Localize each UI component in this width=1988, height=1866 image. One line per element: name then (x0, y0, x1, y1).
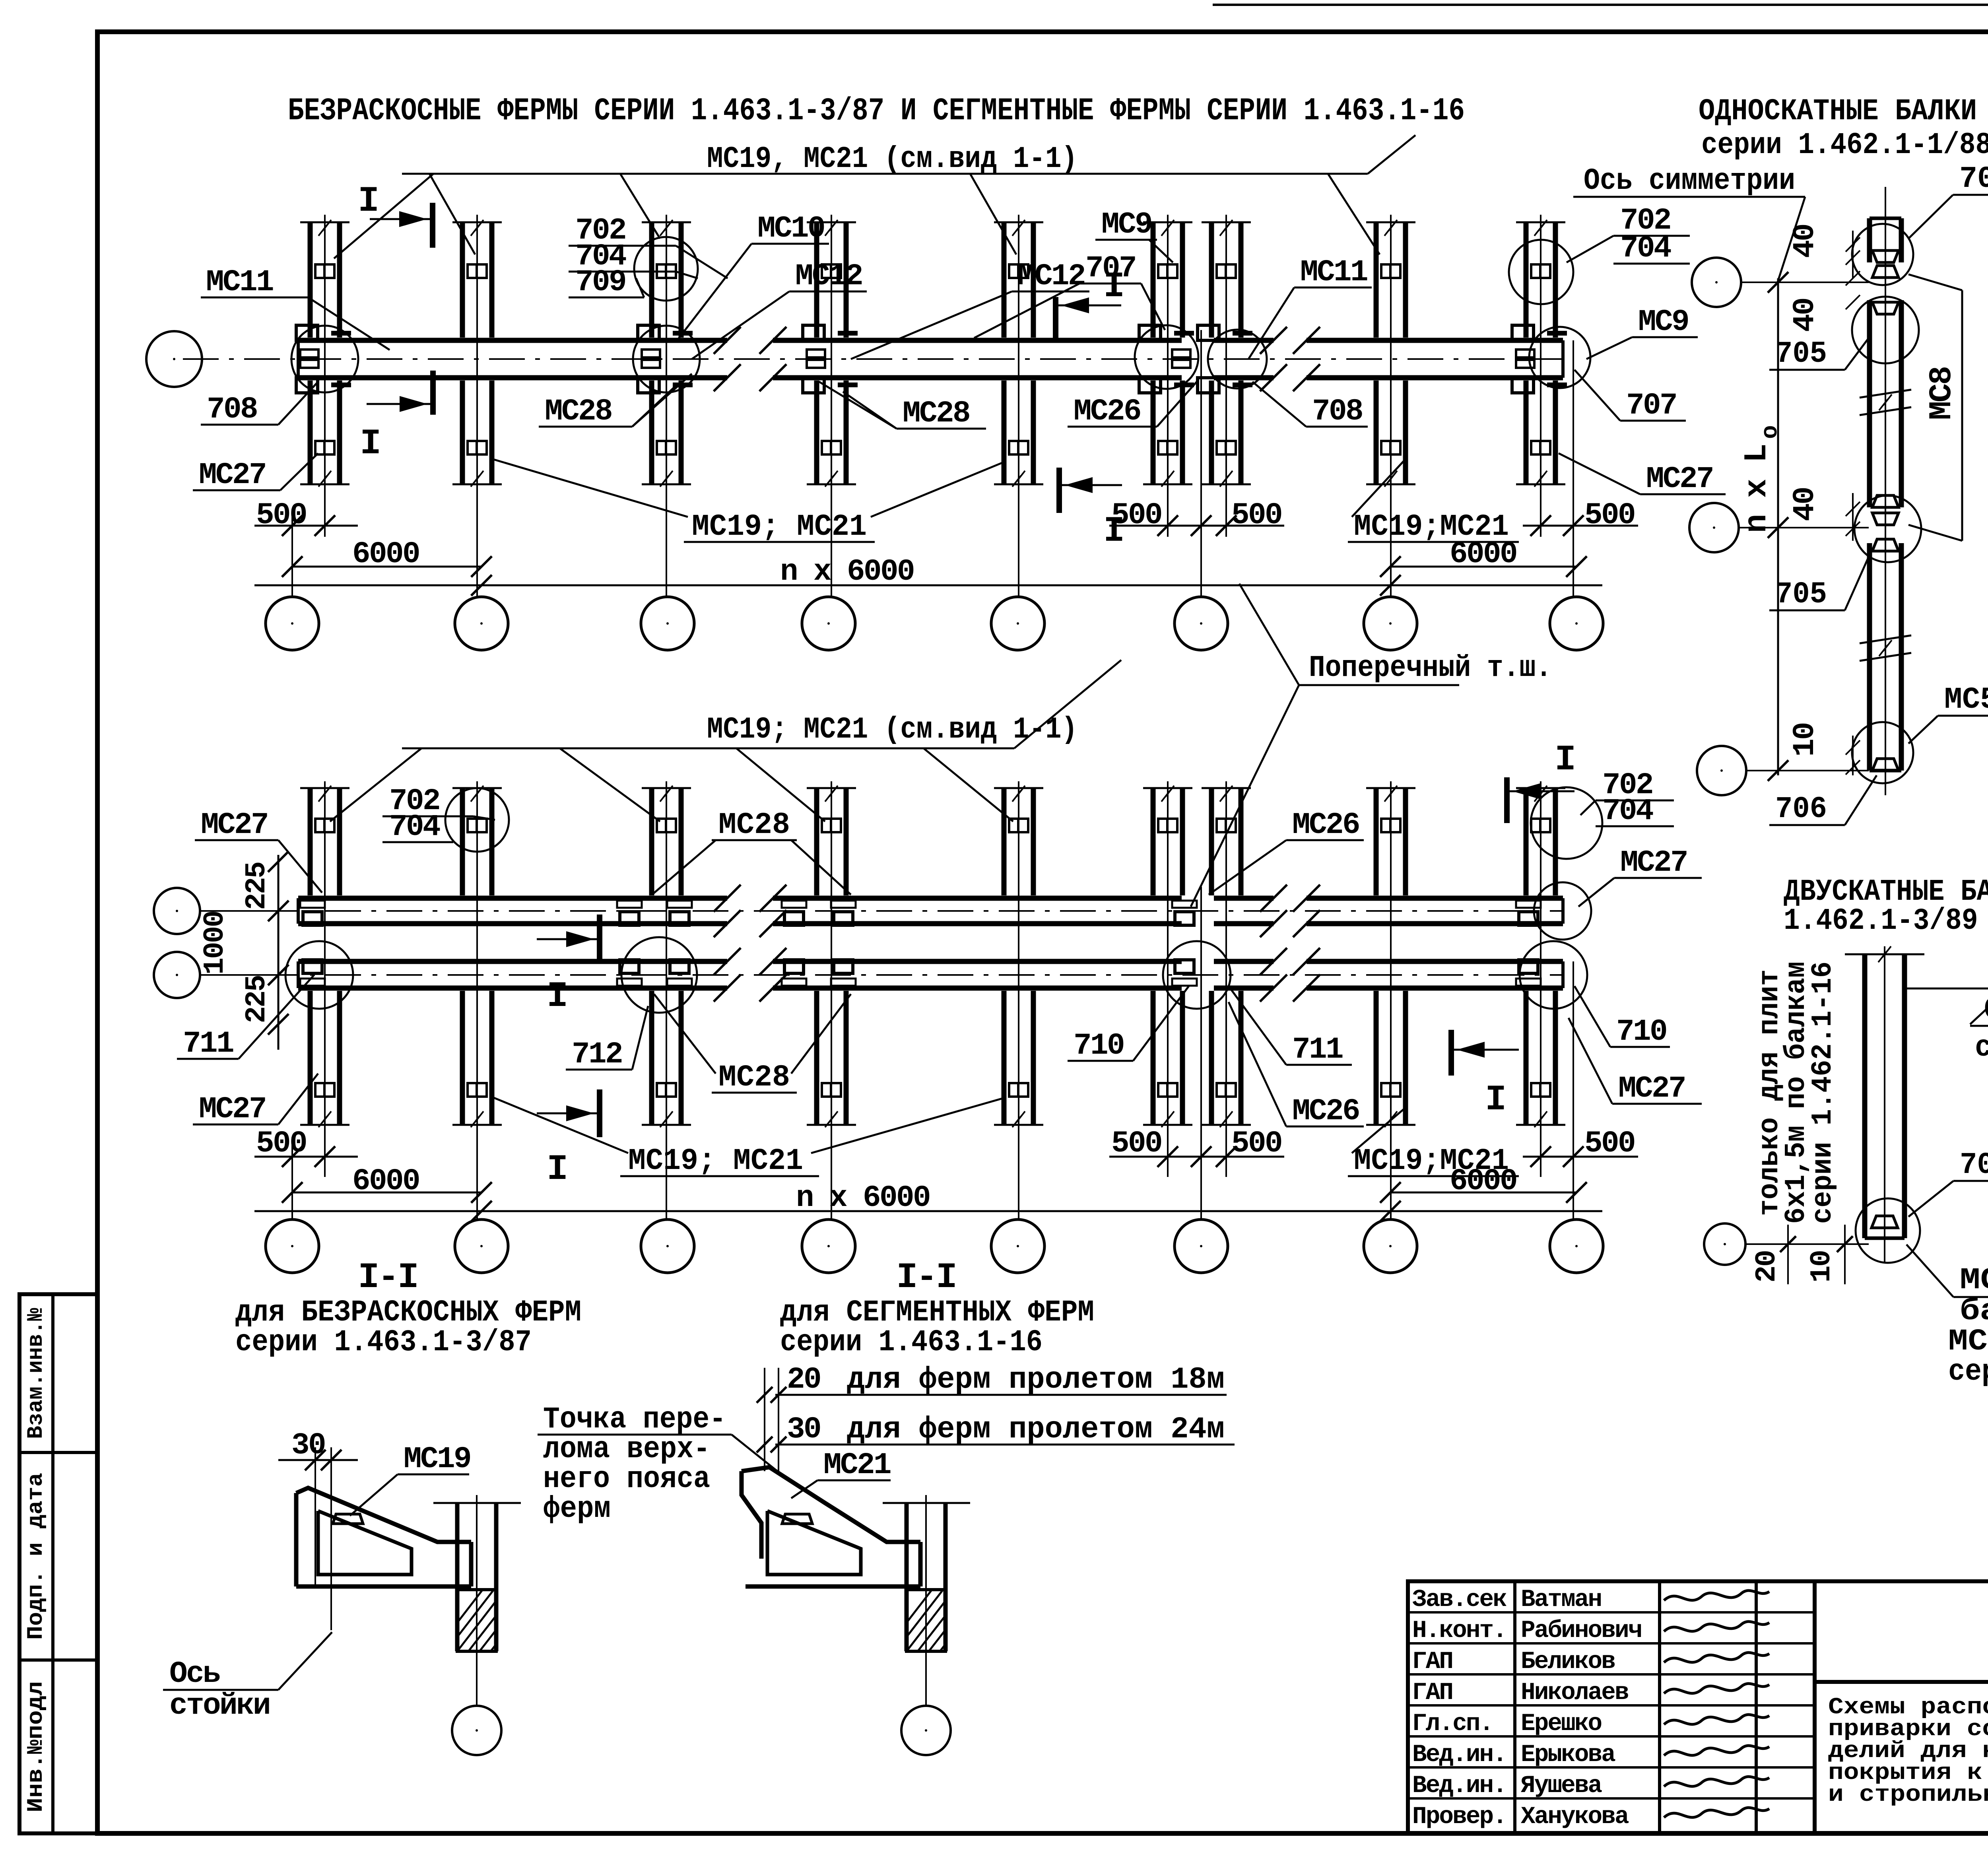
svg-text:500: 500 (1584, 1126, 1635, 1161)
detail left truss sketch (296, 1488, 521, 1755)
svg-text:704: 704 (1602, 794, 1653, 828)
gable beam Ось симметрии label (1905, 988, 1988, 1065)
plan1 dim 500 middle pair (1109, 498, 1284, 536)
svg-text:стойки: стойки (169, 1689, 270, 1723)
svg-text:МС12: МС12 (795, 259, 862, 293)
plan2 column circles (266, 1219, 1603, 1273)
plan1 bottom label МС19;МС21 right (1348, 461, 1519, 544)
svg-text:I: I (1103, 511, 1123, 552)
svg-text:Вед.ин.: Вед.ин. (1412, 1741, 1506, 1769)
label 705н (1908, 162, 1988, 239)
plan1 node detail circles (291, 237, 1590, 392)
label Поперечный т.ш. (1191, 584, 1552, 907)
svg-text:БЕЗРАСКОСНЫЕ ФЕРМЫ СЕРИИ 1.463: БЕЗРАСКОСНЫЕ ФЕРМЫ СЕРИИ 1.463.1-3/87 И … (288, 93, 1465, 129)
svg-text:МС19;МС21: МС19;МС21 (1354, 1144, 1509, 1178)
label Ось стойки (163, 1632, 332, 1723)
svg-text:Инв.№подл: Инв.№подл (23, 1681, 49, 1812)
plan1 node hooks and connectors (296, 325, 1567, 393)
svg-text:6000: 6000 (352, 1164, 419, 1198)
svg-text:Ерыкова: Ерыкова (1521, 1741, 1615, 1769)
svg-text:Беликов: Беликов (1521, 1648, 1615, 1676)
title ОДНОСКАТНЫЕ БАЛКИ (1699, 94, 1988, 162)
svg-text:o: o (1758, 426, 1784, 439)
svg-text:серии 1.462.1-1/88: серии 1.462.1-1/88 (1701, 128, 1988, 162)
svg-text:серии 1.463.1-16: серии 1.463.1-16 (780, 1325, 1043, 1359)
plan1 left axis bubble (146, 331, 202, 387)
svg-text:Ось: Ось (1984, 993, 1988, 1027)
svg-text:балок серии 1.462.1-16/88: балок серии 1.462.1-16/88 (1960, 1294, 1988, 1328)
svg-text:711: 711 (183, 1027, 233, 1061)
svg-text:20: 20 (787, 1363, 820, 1397)
svg-text:I: I (1555, 740, 1574, 781)
title block description (1828, 1695, 1988, 1808)
svg-text:МС8: МС8 (1924, 367, 1960, 420)
svg-text:МС26: МС26 (1292, 1094, 1359, 1128)
svg-text:ферм: ферм (543, 1492, 611, 1526)
svg-text:710: 710 (1616, 1015, 1666, 1049)
svg-text:n x 6000: n x 6000 (796, 1181, 930, 1215)
svg-text:МС27: МС27 (1646, 462, 1713, 496)
svg-text:МС19; МС21: МС19; МС21 (692, 510, 867, 544)
svg-text:20: 20 (1751, 1251, 1783, 1283)
single-slope beam detail circles (1852, 224, 1921, 783)
svg-text:ГАП: ГАП (1412, 1648, 1452, 1676)
detail I-I left caption (235, 1258, 581, 1359)
plan2 label МС28 bottom (654, 994, 851, 1095)
svg-text:225: 225 (241, 976, 273, 1023)
svg-text:МС10: МС10 (757, 212, 824, 246)
svg-text:МС19;МС21: МС19;МС21 (1354, 510, 1509, 544)
svg-text:Ерешко: Ерешко (1521, 1710, 1602, 1738)
svg-text:40: 40 (1788, 299, 1822, 332)
plan2 column axis lines (292, 781, 1573, 1219)
title block signatures (1664, 1590, 1769, 1817)
label 705 upper (1769, 337, 1869, 371)
svg-text:10: 10 (1788, 723, 1822, 757)
plan2 left axis bubbles (154, 888, 298, 998)
svg-text:Провер.: Провер. (1412, 1803, 1506, 1831)
plan1 roof trusses below girder (300, 381, 1565, 487)
svg-text:I: I (358, 181, 378, 222)
plan1 roof trusses above girder (300, 220, 1565, 338)
gable beam dims 20 10 (1751, 1225, 1853, 1284)
plan2 labels 702 704 right (1580, 768, 1674, 828)
plan2 label МС28 top (652, 808, 851, 895)
svg-text:МС52 для 1 типоразмера балок: МС52 для 1 типоразмера балок (1948, 1324, 1988, 1359)
svg-text:500: 500 (1111, 1126, 1161, 1161)
svg-text:n x 6000: n x 6000 (780, 555, 914, 589)
svg-text:Рабинович: Рабинович (1521, 1617, 1641, 1645)
detail left dim 30 (278, 1428, 358, 1630)
detail I-I right caption (780, 1258, 1094, 1359)
svg-text:МС19; МС21: МС19; МС21 (628, 1144, 803, 1178)
svg-text:лома верх-: лома верх- (543, 1432, 710, 1466)
svg-text:705: 705 (1775, 577, 1827, 612)
svg-text:500: 500 (1584, 498, 1635, 532)
svg-text:40: 40 (1788, 225, 1822, 258)
gable beam detail circle (1856, 1198, 1920, 1263)
svg-text:500: 500 (256, 498, 306, 532)
svg-text:МС28: МС28 (903, 396, 969, 431)
svg-text:МС21: МС21 (823, 1448, 891, 1482)
plan1 dim 500 right (1523, 498, 1638, 536)
plan2 roof trusses above upper girder (300, 786, 1565, 895)
svg-text:710: 710 (1074, 1029, 1124, 1063)
svg-text:симметрии: симметрии (1975, 1031, 1988, 1065)
svg-text:Поперечный т.ш.: Поперечный т.ш. (1309, 651, 1552, 685)
svg-text:серии 1.462.1-3/89: серии 1.462.1-3/89 (1948, 1355, 1988, 1389)
svg-text:40: 40 (1788, 488, 1822, 521)
svg-text:711: 711 (1292, 1033, 1343, 1067)
svg-text:704: 704 (389, 810, 440, 844)
svg-text:МС26: МС26 (1292, 808, 1359, 842)
svg-text:706: 706 (1775, 792, 1827, 826)
plan2 dim 500 right (1523, 1126, 1638, 1167)
title block role names (1412, 1586, 1641, 1831)
plan2 header leader diagonals (330, 748, 1013, 821)
svg-text:и стропильным конструкциям: и стропильным конструкциям (1828, 1782, 1988, 1808)
svg-text:МС27: МС27 (201, 808, 268, 842)
plan1 dim 6000 right (1380, 537, 1587, 577)
svg-text:I-I: I-I (358, 1258, 417, 1298)
svg-text:МС12: МС12 (1018, 259, 1085, 293)
svg-text:10: 10 (1806, 1251, 1838, 1283)
svg-text:МС27: МС27 (199, 458, 266, 492)
plan2 header label МС19; МС21 (см.вид 1-1) (402, 660, 1121, 748)
plan2 lower girder lines (298, 948, 1563, 1002)
svg-text:МС51 для 2 и 3 типоразмеров: МС51 для 2 и 3 типоразмеров (1960, 1263, 1988, 1297)
plan2 dim n x 6000 (254, 1181, 1602, 1221)
note МС51 МС52 block (1906, 1245, 1988, 1389)
svg-text:МС28: МС28 (718, 808, 790, 842)
svg-text:МС9: МС9 (1638, 305, 1688, 339)
label 706 gable (1908, 1148, 1988, 1217)
svg-text:МС50: МС50 (1944, 683, 1988, 717)
plan2 roof trusses below lower girder (300, 991, 1565, 1127)
svg-text:Гл.сп.: Гл.сп. (1412, 1710, 1493, 1738)
svg-text:Зав.сек: Зав.сек (1412, 1586, 1507, 1614)
plan1 bottom label МС19; МС21 (493, 459, 1006, 544)
plan1 header label МС19, МС21 (см.вид 1-1) (402, 135, 1415, 176)
svg-text:30: 30 (291, 1428, 325, 1462)
label Точка перелома верхнего пояса ферм (538, 1402, 777, 1526)
label МС8 with bracket (1908, 274, 1962, 541)
plan1 column circles (266, 597, 1603, 650)
svg-text:I-I: I-I (896, 1258, 955, 1298)
plan1 header leader diagonals (334, 174, 1380, 258)
plan2 bottom label МС19;МС21 right (1348, 1109, 1519, 1178)
svg-text:1000: 1000 (199, 911, 231, 975)
svg-text:500: 500 (1231, 498, 1281, 532)
svg-text:МС11: МС11 (1300, 255, 1367, 289)
label Ось симметрии plan1 (1573, 164, 1805, 283)
svg-text:МС28: МС28 (545, 394, 612, 429)
svg-text:708: 708 (207, 392, 257, 427)
labels 702 704 709 stack (569, 214, 728, 299)
svg-text:709: 709 (575, 265, 625, 299)
svg-text:6000: 6000 (352, 537, 419, 571)
svg-text:705: 705 (1775, 337, 1827, 371)
svg-text:30: 30 (787, 1412, 820, 1447)
title block outer box (1408, 1581, 1988, 1833)
plan2 node hooks upper girder (300, 901, 1541, 925)
svg-text:Николаев: Николаев (1521, 1679, 1628, 1707)
svg-text:МС19, МС21 (см.вид 1-1): МС19, МС21 (см.вид 1-1) (707, 142, 1077, 176)
svg-text:МС27: МС27 (1620, 846, 1687, 880)
svg-text:Подп. и дата: Подп. и дата (23, 1473, 49, 1640)
svg-text:706: 706 (1960, 1148, 1988, 1182)
label 706 single-slope (1769, 775, 1877, 826)
svg-text:Точка пере-: Точка пере- (543, 1402, 726, 1437)
svg-text:ГАП: ГАП (1412, 1679, 1452, 1707)
left stamp box (19, 1294, 97, 1833)
plan2 dim 6000 right (1380, 1164, 1587, 1203)
plan2 upper girder lines (298, 885, 1563, 937)
svg-text:для БЕЗРАСКОСНЫХ ФЕРМ: для БЕЗРАСКОСНЫХ ФЕРМ (235, 1295, 581, 1330)
plan2 dim 6000 left (282, 1164, 492, 1203)
svg-text:707: 707 (1626, 388, 1676, 423)
svg-text:МС26: МС26 (1074, 394, 1140, 429)
svg-text:МС11: МС11 (206, 265, 273, 299)
plan1 dim n x 6000 (254, 555, 1602, 596)
plan2 lower girder centreline (203, 974, 1563, 976)
svg-text:705н: 705н (1959, 162, 1988, 196)
svg-text:для ферм пролетом 18м: для ферм пролетом 18м (847, 1363, 1225, 1397)
detail right dims 20 30 rows (757, 1363, 1235, 1471)
svg-text:n x L: n x L (1739, 445, 1775, 533)
svg-text:Ось симметрии: Ось симметрии (1584, 164, 1795, 198)
plan2 dim 500 left (254, 1126, 358, 1167)
title ДВУСКАТНЫЕ БАЛКИ СЕРИЙ (1784, 874, 1988, 938)
svg-text:500: 500 (256, 1126, 306, 1161)
plan2 node hooks lower girder (300, 960, 1541, 986)
plan2 bottom label МС19; МС21 (493, 1097, 1006, 1178)
svg-text:для СЕГМЕНТНЫХ ФЕРМ: для СЕГМЕНТНЫХ ФЕРМ (780, 1295, 1094, 1330)
svg-text:Ватман: Ватман (1521, 1586, 1601, 1614)
single-slope beam diagram (1860, 187, 1911, 795)
title block grid (1408, 1581, 1988, 1833)
plan2 upper girder centreline (203, 910, 1563, 912)
single-slope dim n x Lo (1739, 272, 1788, 781)
svg-text:МС28: МС28 (718, 1060, 790, 1095)
gable beam axis circle (1704, 1223, 1869, 1265)
single-slope small dims 40 40 40 10 (1788, 225, 1860, 775)
plan2 left vertical dims 225 1000 225 (199, 851, 289, 1050)
svg-text:Взам.инв.№: Взам.инв.№ (23, 1308, 49, 1439)
plan1 column axis lines (292, 215, 1573, 597)
single-slope axis circles and lines (1689, 258, 1869, 795)
plan2 dim 500 middle pair (1109, 1126, 1284, 1167)
svg-text:I: I (1485, 1080, 1505, 1120)
svg-text:ОДНОСКАТНЫЕ БАЛКИ: ОДНОСКАТНЫЕ БАЛКИ (1699, 94, 1977, 128)
svg-text:для ферм пролетом 24м: для ферм пролетом 24м (847, 1412, 1225, 1447)
detail right truss sketch (742, 1467, 970, 1755)
svg-text:Ханукова: Ханукова (1521, 1803, 1629, 1831)
svg-text:Ось: Ось (169, 1657, 220, 1691)
gable beam diagram (1845, 946, 1924, 1262)
svg-text:708: 708 (1312, 394, 1362, 429)
svg-text:Вед.ин.: Вед.ин. (1412, 1772, 1506, 1800)
svg-text:I: I (360, 424, 380, 464)
label 705 lower (1769, 557, 1869, 612)
plan1 section markers (358, 181, 1123, 552)
sheet top edge line (1213, 4, 1988, 6)
svg-text:I: I (547, 1150, 567, 1190)
svg-text:него пояса: него пояса (543, 1462, 710, 1496)
labels 702 704 right (1567, 204, 1690, 266)
svg-text:704: 704 (1620, 231, 1671, 266)
svg-text:МС9: МС9 (1101, 208, 1151, 242)
svg-text:серии 1.463.1-3/87: серии 1.463.1-3/87 (235, 1325, 532, 1359)
plan1 girder (beam) lines (298, 327, 1563, 391)
svg-text:МС19: МС19 (404, 1442, 470, 1476)
svg-text:МС27: МС27 (1618, 1072, 1685, 1106)
svg-text:Яушева: Яушева (1521, 1772, 1602, 1800)
plan2 node detail circles (285, 787, 1602, 1013)
svg-text:1.462.1-3/89 и 1.462.1-16/88: 1.462.1-3/89 и 1.462.1-16/88 (1784, 904, 1988, 938)
svg-text:МС27: МС27 (199, 1092, 266, 1126)
svg-text:225: 225 (241, 862, 273, 910)
svg-text:Н.конт.: Н.конт. (1412, 1617, 1506, 1645)
svg-text:I: I (1103, 267, 1123, 307)
plan1 dim 6000 left (282, 537, 492, 577)
svg-text:I: I (547, 977, 567, 1017)
plan2 section markers (537, 740, 1574, 1190)
svg-text:500: 500 (1231, 1126, 1281, 1161)
svg-text:серии 1.462.1-16: серии 1.462.1-16 (1807, 961, 1839, 1224)
plan2 labels 702 704 left (382, 784, 495, 844)
plan1 girder centreline (183, 358, 1563, 360)
plan1 dim 500 left (254, 498, 358, 536)
label МС50 single-slope (1908, 683, 1988, 744)
svg-text:712: 712 (572, 1037, 622, 1072)
gable beam rotated note 3 lines (1753, 961, 1839, 1224)
